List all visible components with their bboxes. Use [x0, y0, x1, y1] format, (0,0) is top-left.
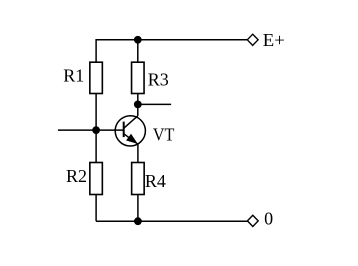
resistor R4	[132, 163, 145, 195]
svg-text:R4: R4	[145, 171, 166, 191]
wire: collector node stub to the right	[138, 103, 171, 105]
node: junction dot bottom rail / R4	[134, 217, 142, 225]
svg-text:R1: R1	[63, 66, 84, 86]
svg-text:R2: R2	[66, 166, 87, 186]
wire: R2 bottom lead	[95, 195, 97, 222]
wire: R3 bottom lead to collector node	[137, 94, 139, 105]
transistor VT emitter arrowhead	[127, 135, 137, 143]
terminal 0 diamond	[247, 215, 258, 226]
resistor R1	[90, 62, 103, 93]
wire: emitter lead down to R4	[137, 144, 139, 162]
node: junction dot collector	[134, 101, 142, 109]
svg-text:E+: E+	[263, 30, 285, 50]
wire: R1 bottom lead to base node	[95, 94, 97, 131]
svg-text:VT: VT	[153, 125, 175, 145]
wire: R3 top lead	[137, 40, 139, 62]
svg-text:R3: R3	[148, 70, 169, 90]
resistor R3	[132, 62, 145, 93]
transistor VT collector diagonal	[124, 116, 138, 129]
wire: R4 bottom lead	[137, 195, 139, 222]
wire: collector lead down to transistor	[137, 104, 139, 115]
wire: top rail from R1 top corner to E+ terminal	[96, 39, 248, 41]
terminal E+ diamond	[247, 34, 258, 45]
wire: bottom rail to 0 terminal	[96, 220, 248, 222]
transistor VT base bar	[123, 122, 125, 138]
svg-text:0: 0	[264, 208, 273, 228]
node: junction dot top rail / R3	[134, 36, 142, 44]
resistor R2	[90, 163, 103, 195]
wire: base horizontal wire	[58, 129, 124, 131]
node: junction dot base divider	[92, 126, 100, 134]
wire: R1 top lead	[95, 39, 97, 62]
transistor VT emitter diagonal	[124, 134, 138, 145]
wire: R2 top lead	[95, 130, 97, 162]
transistor VT circle	[115, 116, 145, 146]
